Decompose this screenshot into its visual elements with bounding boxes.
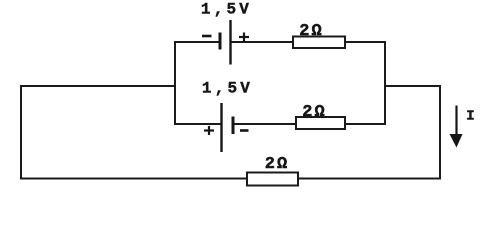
wire: middle branch middle segment <box>233 123 296 125</box>
label: B2 minus sign <box>240 129 249 132</box>
battery B1 negative plate (short) <box>219 33 222 50</box>
svg-text:I: I <box>466 109 474 125</box>
svg-text:1,5V: 1,5V <box>201 0 252 18</box>
wire: left connector horizontal <box>21 85 175 87</box>
battery B1 positive plate (long) <box>229 20 231 65</box>
svg-text:2Ω: 2Ω <box>299 22 323 41</box>
battery B2 positive plate (long) <box>220 103 222 152</box>
resistor R3 body <box>247 173 298 186</box>
wire: top branch right segment <box>345 41 385 43</box>
resistor R2 body <box>296 117 345 129</box>
svg-text:2Ω: 2Ω <box>302 103 326 122</box>
wire: bottom left segment <box>21 178 247 180</box>
label: B2 plus sign <box>204 126 214 135</box>
wire: left bus vertical (node A) <box>174 42 176 124</box>
wire: middle branch left segment <box>175 123 221 125</box>
label: B1 plus sign <box>239 33 249 42</box>
resistor R1 body <box>293 37 345 49</box>
svg-text:1,5V: 1,5V <box>202 80 253 98</box>
wire: top branch middle segment <box>231 41 294 43</box>
wire: right bus vertical (node B) <box>384 42 386 124</box>
svg-text:2Ω: 2Ω <box>265 155 289 174</box>
label: B1 minus sign <box>202 35 212 38</box>
wire: right outer vertical <box>439 86 441 179</box>
battery B2 negative plate (short) <box>232 117 235 135</box>
current arrow I <box>450 106 463 148</box>
wire: bottom right segment <box>298 178 440 180</box>
wire: left outer vertical <box>20 86 22 179</box>
wire: right connector horizontal <box>385 85 440 87</box>
wire: top branch left segment <box>175 41 220 43</box>
wire: middle branch right segment <box>345 123 385 125</box>
